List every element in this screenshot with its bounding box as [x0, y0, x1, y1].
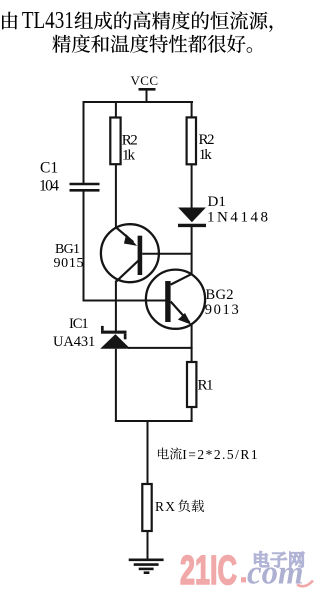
svg-text:R2: R2: [199, 132, 215, 148]
wire RX to ground: [147, 531, 149, 560]
svg-text:TL431: TL431: [22, 8, 74, 34]
wire R2 left bottom lead: [115, 164, 117, 228]
diode D1: [178, 208, 206, 226]
wire left branch lower: [83, 190, 85, 301]
wire BG1 base to right branch: [142, 253, 192, 255]
svg-text:9015: 9015: [54, 256, 84, 271]
ground: [129, 560, 164, 573]
svg-text:VCC: VCC: [131, 73, 159, 88]
transistor BG1 (PNP): [101, 224, 159, 282]
capacitor C1: [70, 184, 100, 190]
label RX 负载: [155, 499, 204, 514]
svg-text:1k: 1k: [199, 147, 213, 163]
svg-text:UA431: UA431: [53, 334, 95, 350]
svg-text:BG2: BG2: [206, 287, 234, 303]
wire R1 top lead: [191, 347, 193, 363]
resistor R2 (right): [187, 117, 196, 164]
svg-text:RX: RX: [155, 499, 175, 514]
wire R2 left top lead: [115, 102, 117, 119]
svg-text:I=2*2.5/R1: I=2*2.5/R1: [182, 447, 257, 462]
svg-text:1k: 1k: [122, 148, 136, 164]
svg-text:IC1: IC1: [69, 316, 89, 332]
resistor R1: [187, 362, 196, 407]
svg-text:C1: C1: [40, 160, 58, 177]
wire left branch upper: [83, 101, 85, 184]
wire UA431 cathode stem: [115, 301, 117, 332]
wire VCC stem: [146, 89, 148, 103]
wire R2 right top lead: [191, 102, 193, 119]
svg-text:BG1: BG1: [55, 242, 80, 257]
wire top rail: [83, 101, 194, 103]
transistor BG2 (NPN): [146, 270, 205, 329]
svg-text:R2: R2: [122, 133, 138, 149]
formula label 电流I=2*2.5/R1: [158, 447, 258, 462]
wire bottom rail: [115, 420, 193, 422]
caption line 2: [52, 35, 252, 53]
wire BG1 collector down: [115, 281, 117, 302]
VCC terminal bar: [139, 88, 156, 91]
21IC logo: [180, 547, 313, 593]
wire UA431 ref lead: [128, 347, 192, 349]
resistor RX (load): [142, 484, 151, 531]
wire D1 to BG2 collector: [191, 226, 193, 275]
svg-text:104: 104: [39, 177, 59, 194]
wire BG2 emitter down: [191, 324, 193, 349]
svg-text:21IC: 21IC: [180, 547, 237, 593]
wire UA431 anode down: [115, 349, 117, 422]
svg-text:9013: 9013: [205, 302, 239, 318]
shunt regulator IC1 UA431: [100, 326, 130, 349]
wire R1 bottom lead: [191, 407, 193, 422]
wire R2 right bottom lead: [191, 164, 193, 208]
resistor R2 (left): [110, 118, 120, 165]
wire to load RX: [147, 421, 149, 485]
svg-text:D1: D1: [208, 194, 226, 210]
svg-text:R1: R1: [198, 377, 214, 393]
wire node row: [83, 300, 166, 302]
caption line 1: [2, 8, 272, 34]
